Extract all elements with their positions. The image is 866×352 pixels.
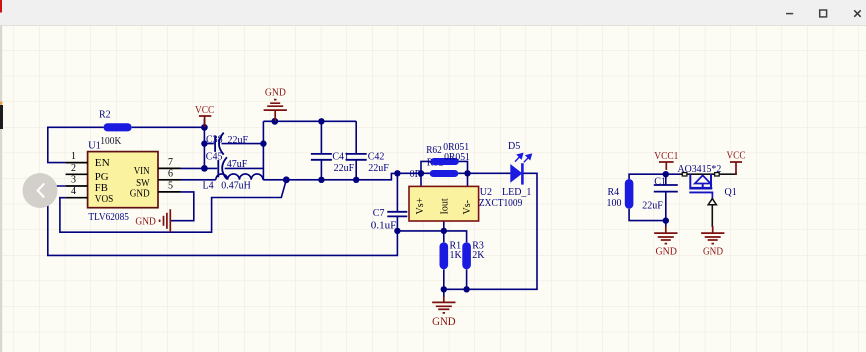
wire R2 right to VCC column bbox=[132, 126, 205, 128]
junction FB node bbox=[394, 228, 400, 234]
wire C42 column bbox=[355, 121, 357, 180]
wire VOS sense net bbox=[60, 180, 286, 232]
wire EN net: pin1 to R2 left bbox=[48, 127, 104, 162]
U1 pin 3 stub bbox=[66, 185, 88, 187]
svg-text:L4: L4 bbox=[203, 181, 214, 192]
junction gnd rail stem bbox=[271, 118, 278, 125]
U1 pin 7 stub bbox=[158, 167, 181, 169]
U1 pin 5 stub bbox=[158, 191, 181, 193]
wire R4 bottom rail bbox=[629, 209, 666, 221]
svg-text:GND: GND bbox=[655, 247, 677, 258]
svg-text:GND: GND bbox=[130, 187, 150, 199]
op-amp U1 body bbox=[88, 152, 158, 208]
wire black segment to VCC corner bbox=[680, 173, 737, 175]
svg-text:Q1: Q1 bbox=[725, 187, 737, 198]
U1 pin 1 stub bbox=[66, 162, 88, 164]
svg-text:R2: R2 bbox=[99, 110, 111, 121]
svg-text:2: 2 bbox=[71, 163, 76, 174]
titlebar red corner mark bbox=[0, 0, 2, 13]
svg-text:0R: 0R bbox=[410, 169, 422, 180]
svg-text:AO3415*2: AO3415*2 bbox=[678, 164, 722, 175]
left edge black scrollbar thumb bbox=[0, 105, 3, 129]
wire sense resistor parallel loop bbox=[421, 161, 468, 173]
svg-text:6: 6 bbox=[168, 169, 173, 180]
svg-text:0.47uH: 0.47uH bbox=[221, 181, 251, 192]
junction C41 top bbox=[318, 118, 324, 124]
Q1 arrow marker bbox=[708, 199, 716, 205]
junction C1 bottom rail bbox=[663, 217, 669, 223]
Q1 channel bar bbox=[689, 187, 712, 190]
svg-text:Vs+: Vs+ bbox=[415, 197, 426, 214]
svg-text:22uF: 22uF bbox=[228, 135, 249, 146]
svg-text:7: 7 bbox=[168, 157, 173, 168]
svg-text:22uF: 22uF bbox=[642, 200, 663, 211]
svg-text:Vs-: Vs- bbox=[462, 200, 473, 214]
wire right section top rail bbox=[629, 174, 680, 179]
junction VOS tap bbox=[283, 176, 290, 183]
svg-text:3: 3 bbox=[71, 175, 76, 186]
svg-text:C7: C7 bbox=[373, 208, 385, 219]
junction C7 top bbox=[394, 170, 400, 176]
resistor R62 body bbox=[431, 158, 459, 165]
wire Q1 source to ground bbox=[711, 205, 713, 227]
svg-text:0R051: 0R051 bbox=[444, 152, 470, 163]
junction C38 right bbox=[260, 140, 266, 146]
junction C42 bottom bbox=[353, 177, 359, 183]
maximize button bbox=[820, 10, 827, 17]
wire C1 bottom bbox=[665, 192, 667, 226]
back navigation circle button bbox=[23, 173, 58, 208]
junction VCC/R2 bbox=[201, 124, 208, 131]
Q1 drain pin marker bbox=[682, 173, 687, 176]
Q1 source pin marker bbox=[715, 173, 720, 176]
junction R3 gnd bbox=[463, 286, 469, 292]
wire FB net bbox=[48, 186, 398, 255]
wire R1 bottom bbox=[443, 269, 445, 289]
junction C38 left bbox=[201, 140, 207, 146]
svg-text:GND: GND bbox=[135, 216, 156, 227]
resistor R52 body bbox=[430, 170, 459, 177]
svg-text:C45: C45 bbox=[206, 152, 223, 163]
svg-text:5: 5 bbox=[168, 180, 173, 191]
svg-text:VIN: VIN bbox=[134, 165, 150, 177]
svg-text:D5: D5 bbox=[508, 141, 520, 152]
wire C45 row from pin7 bbox=[181, 167, 264, 169]
wire bottom gnd rail and LED return loop bbox=[444, 173, 537, 289]
svg-text:GND: GND bbox=[265, 87, 286, 98]
wire C38 row bbox=[204, 143, 263, 145]
wire U2 top pins bbox=[421, 173, 468, 186]
wire L4 right to output rail bbox=[263, 173, 397, 179]
svg-text:1K: 1K bbox=[450, 250, 463, 261]
wire pin5 to ground bbox=[171, 192, 194, 221]
junction Vs- pin bbox=[464, 170, 470, 176]
svg-text:R4: R4 bbox=[608, 187, 620, 198]
Q1 gate bar bbox=[689, 191, 713, 193]
svg-text:VCC: VCC bbox=[195, 105, 215, 116]
svg-text:GND: GND bbox=[432, 316, 456, 328]
left scrollbar track bbox=[0, 25, 2, 352]
Q1 left leg bbox=[689, 174, 691, 187]
wire C7 column bbox=[396, 173, 398, 231]
junction C41 bottom bbox=[318, 177, 324, 183]
window title bar bbox=[0, 0, 866, 26]
junction Vs+ pin bbox=[418, 170, 424, 176]
svg-text:C42: C42 bbox=[368, 152, 385, 163]
svg-text:22uF: 22uF bbox=[368, 163, 389, 174]
wire R3 bottom bbox=[466, 269, 468, 289]
svg-text:VOS: VOS bbox=[95, 193, 114, 205]
wire SW row to L4 bbox=[181, 179, 216, 181]
svg-text:2K: 2K bbox=[472, 250, 485, 261]
svg-text:100: 100 bbox=[607, 198, 622, 209]
svg-text:Iout: Iout bbox=[439, 198, 450, 214]
svg-text:100K: 100K bbox=[100, 136, 122, 147]
Q1 right leg bbox=[710, 174, 712, 187]
wire C1 top column bbox=[665, 174, 667, 185]
U1 pin 6 stub bbox=[158, 179, 181, 181]
svg-text:1: 1 bbox=[71, 151, 76, 162]
wire main sense row bbox=[397, 172, 510, 174]
svg-text:LED_1: LED_1 bbox=[502, 187, 531, 198]
close button bbox=[854, 10, 861, 16]
wire Iout to R1 bbox=[443, 221, 445, 242]
wire FB node rail bbox=[397, 231, 466, 242]
D5 emission arrows bbox=[515, 154, 531, 163]
Q1 substrate arrow bbox=[695, 175, 711, 183]
wire right cap column bbox=[262, 121, 264, 180]
svg-text:22uF: 22uF bbox=[334, 163, 355, 174]
wire VCC column bbox=[203, 119, 205, 168]
svg-text:U2: U2 bbox=[480, 187, 492, 198]
U1 pin 4 stub bbox=[66, 197, 88, 199]
junction VIN row bbox=[201, 165, 208, 172]
junction R1 gnd bbox=[441, 286, 447, 292]
U1 pin 2 stub bbox=[66, 173, 88, 175]
svg-text:TLV62085: TLV62085 bbox=[88, 212, 128, 223]
svg-text:R62: R62 bbox=[426, 145, 442, 156]
svg-text:C38: C38 bbox=[206, 135, 223, 146]
junction VCC1/C1 bbox=[663, 171, 669, 177]
left scrollbar orange tick bbox=[0, 102, 2, 105]
junction Iout node bbox=[441, 228, 447, 234]
svg-text:GND: GND bbox=[703, 247, 723, 258]
svg-text:EN: EN bbox=[95, 157, 110, 169]
svg-text:VCC1: VCC1 bbox=[654, 151, 678, 162]
svg-text:4: 4 bbox=[71, 186, 76, 197]
minimize button bbox=[786, 13, 793, 15]
svg-text:U1: U1 bbox=[88, 141, 101, 152]
svg-text:0.1uF: 0.1uF bbox=[371, 221, 397, 232]
Q1 gate lead bbox=[711, 192, 713, 199]
wire top gnd rail bbox=[263, 120, 356, 122]
svg-text:VCC: VCC bbox=[727, 151, 746, 162]
wire C41 column bbox=[320, 121, 322, 180]
svg-text:47uF: 47uF bbox=[227, 159, 248, 170]
svg-text:C1: C1 bbox=[654, 176, 666, 187]
svg-text:ZXCT1009: ZXCT1009 bbox=[479, 198, 522, 209]
